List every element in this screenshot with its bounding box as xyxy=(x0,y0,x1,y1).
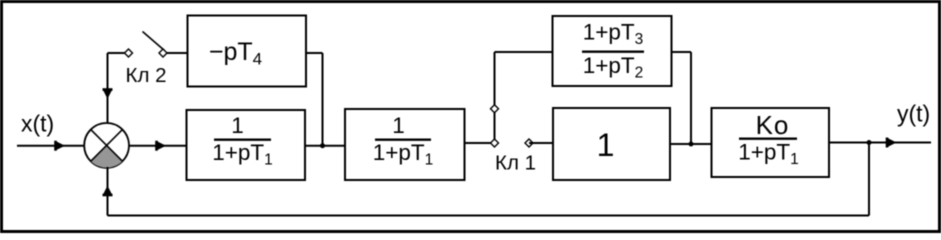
wire vertical branch down to main line after block 1 xyxy=(690,52,692,144)
wire horizontal to switch Kl2 left contact xyxy=(108,52,129,54)
wire feedback vertical right side down xyxy=(868,143,870,216)
wire block W1 to block W2 xyxy=(305,145,345,147)
wire feedback bottom horizontal xyxy=(108,215,870,217)
wire block W3 output to right branch vertical xyxy=(672,51,692,53)
wire block Ko to output y(t) xyxy=(829,142,931,144)
arrow on wire into block W1 xyxy=(157,141,167,151)
block W2 1/(1+pT1) xyxy=(345,109,465,180)
switch Kl2 right contact diamond xyxy=(159,49,167,57)
block W1 1/(1+pT1) xyxy=(187,110,306,180)
svg-text:1: 1 xyxy=(231,113,244,138)
wire from summing junction top up to switch Kl2 xyxy=(107,53,109,123)
svg-text:1+pT1: 1+pT1 xyxy=(738,140,799,169)
svg-text:1+pT3: 1+pT3 xyxy=(583,20,644,49)
svg-text:1: 1 xyxy=(392,113,405,138)
svg-text:y(t): y(t) xyxy=(897,101,930,127)
wire input x(t) to summing junction xyxy=(17,145,88,147)
node junction dot feedback tap xyxy=(867,140,872,145)
block W3 (1+pT3)/(1+pT2) xyxy=(553,16,672,86)
wire horizontal into block W3 1+pT3/1+pT2 xyxy=(495,51,554,53)
summing junction U1 (comparison element, gray lower sector) xyxy=(84,123,129,168)
arrow on Kl2 branch into summing junction top xyxy=(103,90,113,100)
arrow on input wire xyxy=(56,141,66,151)
svg-text:Кл 1: Кл 1 xyxy=(495,152,536,175)
node junction dot after W1 (feedback -pT4 joins) xyxy=(320,143,325,148)
svg-text:1+pT1: 1+pT1 xyxy=(212,140,273,169)
svg-text:1+pT1: 1+pT1 xyxy=(373,140,434,169)
arrow on output wire xyxy=(887,138,897,148)
wire block -pT4 output right then down to junction after W1 xyxy=(306,53,323,146)
switch Kl2 lever (open) xyxy=(143,32,165,51)
node junction dot where branch rejoins xyxy=(689,142,694,147)
svg-text:Ko: Ko xyxy=(756,110,790,140)
wire switch Kl1 right contact to block 1 xyxy=(529,142,553,144)
switch Kl2 left contact diamond xyxy=(125,49,133,57)
wire switch Kl2 right contact to block -pT4 xyxy=(167,52,188,54)
wire feedback left vertical up into summing junction xyxy=(107,167,109,216)
svg-text:1+pT2: 1+pT2 xyxy=(583,53,644,82)
wire block 1 to block Ko xyxy=(670,143,712,145)
arrow on feedback wire into summing junction bottom xyxy=(103,186,113,196)
switch Kl1 lever tip contact diamond xyxy=(491,105,499,113)
svg-text:x(t): x(t) xyxy=(21,111,54,137)
svg-text:1: 1 xyxy=(597,127,615,163)
wire summing junction to block W1 xyxy=(129,145,187,147)
wire vertical branch tap up from Kl1 left contact to 1+pT3 branch xyxy=(494,52,496,143)
block W5 Ko/(1+pT1) xyxy=(712,108,830,177)
wire block W2 to switch Kl1 left contact xyxy=(465,142,495,144)
switch Kl1 left contact diamond xyxy=(491,139,499,147)
block W6 -pT4 xyxy=(188,16,307,87)
switch Kl1 right contact diamond xyxy=(525,139,533,147)
svg-text:Кл 2: Кл 2 xyxy=(126,64,167,87)
block W4 gain 1 xyxy=(553,108,670,180)
